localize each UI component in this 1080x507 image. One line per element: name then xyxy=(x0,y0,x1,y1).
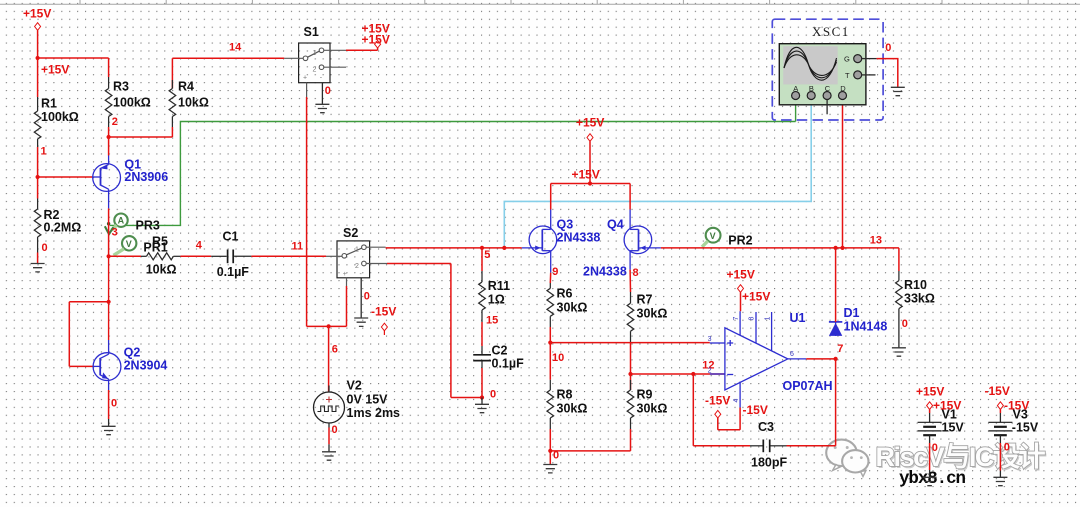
svg-text:1: 1 xyxy=(313,50,317,57)
svg-text:0: 0 xyxy=(885,42,891,54)
svg-text:+15V: +15V xyxy=(572,168,600,182)
svg-text:9: 9 xyxy=(552,266,558,278)
label Q1 xyxy=(124,157,168,184)
node 6 junction xyxy=(327,324,338,355)
ground below V1 xyxy=(923,477,937,485)
ground below S1 xyxy=(315,85,330,113)
svg-text:G: G xyxy=(844,55,850,64)
svg-text:8: 8 xyxy=(749,317,756,321)
watermark wechat logo xyxy=(826,440,868,477)
svg-text:0: 0 xyxy=(364,291,370,303)
svg-text:+15V: +15V xyxy=(362,33,390,47)
svg-text:0: 0 xyxy=(42,242,48,254)
wire R8 R9 bottom to ground xyxy=(548,449,630,464)
svg-text:0: 0 xyxy=(1004,442,1010,454)
resistor R5 10k xyxy=(109,235,181,277)
junction node13 scope D xyxy=(840,234,882,250)
svg-text:1: 1 xyxy=(764,317,771,321)
svg-text:2N4338: 2N4338 xyxy=(557,231,601,245)
resistor R3 100k xyxy=(105,77,151,137)
svg-text:100kΩ: 100kΩ xyxy=(41,110,79,124)
resistor R2 0.2M xyxy=(34,199,81,253)
wire C2 to ground node xyxy=(480,368,496,404)
junction rail xyxy=(588,181,592,185)
svg-text:R3: R3 xyxy=(113,80,129,94)
resistor R7 30k xyxy=(627,292,667,374)
probe PR1 xyxy=(114,236,168,255)
node junction rail/R3 xyxy=(36,56,40,60)
svg-text:2: 2 xyxy=(112,116,118,128)
svg-text:-15V: -15V xyxy=(1012,421,1039,435)
power +15V at op-amp pin7 xyxy=(727,267,771,311)
svg-text:0: 0 xyxy=(111,398,117,410)
transistor Q3 2N4338 xyxy=(522,210,557,273)
wire R6 to R8 xyxy=(549,343,551,380)
svg-text:-15V: -15V xyxy=(743,403,768,417)
diode D1 1N4148 xyxy=(829,306,887,336)
resistor R8 30k xyxy=(547,380,587,451)
svg-text:+15V: +15V xyxy=(576,116,604,130)
svg-text:4: 4 xyxy=(733,399,740,403)
svg-text:R9: R9 xyxy=(637,388,653,402)
wire green probe node to scope A xyxy=(110,100,796,226)
junction node5/R11 xyxy=(480,246,484,250)
capacitor C2 0.1uF xyxy=(473,344,524,371)
wire node 15 xyxy=(482,315,498,347)
svg-text:R5: R5 xyxy=(152,235,168,249)
svg-text:Q3: Q3 xyxy=(557,218,574,232)
wire op-amp output node 7 xyxy=(806,343,843,361)
junction C3 branch xyxy=(691,372,695,376)
wire V1 to ground xyxy=(930,442,938,477)
ground below R8 xyxy=(543,465,557,473)
svg-text:PR3: PR3 xyxy=(136,219,160,233)
svg-text:0: 0 xyxy=(325,85,331,97)
wire node1 to Q1 base xyxy=(38,176,93,178)
wire node 8 xyxy=(630,267,639,292)
svg-text:1: 1 xyxy=(355,247,359,254)
node 4 junction xyxy=(107,254,111,258)
ground below S2 xyxy=(354,291,370,327)
resistor R11 1ohm xyxy=(479,248,510,322)
resistor R1 100k xyxy=(34,97,79,148)
svg-text:PR2: PR2 xyxy=(728,234,752,248)
resistor R6 30k xyxy=(547,283,587,343)
svg-text:R11: R11 xyxy=(488,279,510,293)
wire scope G to ground xyxy=(877,42,898,87)
watermark text RiscV与IC设计 xyxy=(876,442,1048,474)
wire R4 bottom to node 2 xyxy=(109,127,173,137)
svg-text:Q4: Q4 xyxy=(607,218,624,232)
power +15V above Q3 Q4 xyxy=(572,116,605,184)
svg-text:7: 7 xyxy=(837,343,843,355)
svg-text:3: 3 xyxy=(708,336,712,343)
svg-text:V3: V3 xyxy=(1013,408,1028,422)
svg-text:C1: C1 xyxy=(223,230,239,244)
svg-text:33kΩ: 33kΩ xyxy=(904,292,935,306)
svg-text:0.1µF: 0.1µF xyxy=(217,265,250,279)
svg-text:R1: R1 xyxy=(41,97,57,111)
svg-text:7: 7 xyxy=(733,317,740,321)
wire node2 vertical xyxy=(108,137,110,156)
ground below R2 xyxy=(31,264,45,272)
resistor R9 30k xyxy=(627,374,667,451)
power +15V at S1 pin1 xyxy=(346,22,390,51)
wire R2 to ground xyxy=(38,242,48,264)
svg-text:30kΩ: 30kΩ xyxy=(557,402,588,416)
transistor Q2 2N3904 xyxy=(93,340,121,390)
svg-text:30kΩ: 30kΩ xyxy=(637,307,668,321)
svg-text:1ms 2ms: 1ms 2ms xyxy=(347,406,401,420)
wire 14 to S1 xyxy=(172,42,284,59)
svg-text:T: T xyxy=(845,71,850,80)
svg-text:S2: S2 xyxy=(343,226,358,240)
svg-text:XSC1: XSC1 xyxy=(812,24,850,39)
wire S2 pin2 to C2 bottom xyxy=(387,264,482,398)
svg-text:1: 1 xyxy=(41,146,47,158)
wire node 11 xyxy=(251,240,326,256)
wire scope D to node 13 xyxy=(842,100,844,248)
power -15V near S2 xyxy=(371,305,396,336)
ground below V2 xyxy=(322,452,336,460)
label Q4 xyxy=(583,218,627,279)
svg-text:V: V xyxy=(126,239,132,249)
svg-text:0: 0 xyxy=(490,389,496,401)
svg-text:180pF: 180pF xyxy=(751,456,787,470)
label Q3 xyxy=(557,218,601,245)
svg-text:R4: R4 xyxy=(178,80,194,94)
svg-text:10: 10 xyxy=(552,352,564,364)
wire node 4 xyxy=(180,239,211,256)
svg-text:0: 0 xyxy=(932,442,938,454)
junction node5/scope-B xyxy=(502,246,506,250)
ground below C2 xyxy=(475,404,489,412)
node 2 junction xyxy=(107,116,118,139)
wire C3 feedback xyxy=(693,359,835,446)
svg-text:+15V: +15V xyxy=(727,267,755,281)
wire node 10 xyxy=(548,341,710,365)
svg-text:15: 15 xyxy=(486,315,498,327)
svg-text:R7: R7 xyxy=(637,293,653,307)
svg-text:D1: D1 xyxy=(844,306,860,320)
svg-text:ybx8.cn: ybx8.cn xyxy=(899,469,966,489)
svg-text:Q2: Q2 xyxy=(124,346,141,360)
wire node 9 xyxy=(550,266,558,283)
source V2 xyxy=(314,379,401,428)
svg-text:2N3906: 2N3906 xyxy=(124,170,168,184)
wire V2 to ground xyxy=(329,424,338,452)
svg-text:+: + xyxy=(343,271,347,278)
wire +15V rail to Q3 Q4 drains xyxy=(551,184,630,210)
svg-text:0V 15V: 0V 15V xyxy=(347,393,389,407)
wire cyan node5 to scope B xyxy=(504,100,811,248)
svg-text:+: + xyxy=(303,75,307,82)
svg-text:V1: V1 xyxy=(942,408,957,422)
svg-text:8: 8 xyxy=(633,267,639,279)
node 1 xyxy=(36,146,47,199)
wire S1 bottom to S2 row xyxy=(306,97,308,326)
label Q2 xyxy=(124,346,168,373)
svg-text:11: 11 xyxy=(292,240,304,252)
svg-text:2N3904: 2N3904 xyxy=(124,359,168,373)
svg-text:C3: C3 xyxy=(758,420,774,434)
svg-text:2N4338: 2N4338 xyxy=(583,265,627,279)
svg-text:30kΩ: 30kΩ xyxy=(637,402,668,416)
resistor R4 10k xyxy=(169,58,209,127)
ground at scope xyxy=(891,87,905,95)
op-amp U1 OP07AH xyxy=(710,311,807,407)
svg-text:+15V: +15V xyxy=(41,63,69,77)
svg-text:R6: R6 xyxy=(557,287,573,301)
svg-text:-15V: -15V xyxy=(371,305,396,319)
switch S1 xyxy=(284,25,346,104)
svg-text:6: 6 xyxy=(790,351,794,358)
svg-text:100kΩ: 100kΩ xyxy=(113,96,151,110)
svg-text:+15V: +15V xyxy=(916,384,944,398)
svg-text:2: 2 xyxy=(708,367,712,374)
power +15V top-left xyxy=(23,7,69,77)
svg-text:OP07AH: OP07AH xyxy=(783,379,833,393)
wire feedback Q2 xyxy=(69,256,108,366)
junction Q2 feedback xyxy=(107,300,111,304)
svg-text:C2: C2 xyxy=(492,344,508,358)
svg-text:-15V: -15V xyxy=(705,393,730,407)
svg-text:0.1µF: 0.1µF xyxy=(492,357,525,371)
svg-text:R8: R8 xyxy=(557,388,573,402)
svg-text:3: 3 xyxy=(112,227,118,239)
ground below R10 xyxy=(892,348,906,356)
battery V3 -15V xyxy=(985,384,1039,443)
op-amp pin numbers xyxy=(708,317,794,403)
wire Q4 gate to node 13 xyxy=(661,247,899,249)
svg-text:1Ω: 1Ω xyxy=(488,293,505,307)
svg-text:4: 4 xyxy=(196,239,203,251)
svg-text:0: 0 xyxy=(902,318,908,330)
wire Q1 collector down xyxy=(108,208,110,256)
label U1 xyxy=(783,311,833,393)
svg-text:10kΩ: 10kΩ xyxy=(178,96,209,110)
svg-text:U1: U1 xyxy=(790,311,806,325)
svg-text:-15V: -15V xyxy=(985,384,1010,398)
wire V3 to ground xyxy=(1000,442,1010,478)
svg-text:5: 5 xyxy=(484,249,490,261)
svg-text:13: 13 xyxy=(870,234,882,246)
svg-text:S1: S1 xyxy=(304,25,319,39)
wire +15V rail top-left xyxy=(38,30,109,97)
svg-text:2: 2 xyxy=(355,263,359,270)
wire D1 to node 13 xyxy=(835,248,837,322)
wire Q2 emitter to ground xyxy=(109,390,118,426)
ground below V3 xyxy=(993,477,1007,485)
svg-text:V2: V2 xyxy=(347,379,362,393)
svg-text:2: 2 xyxy=(313,67,317,74)
svg-text:14: 14 xyxy=(229,42,242,54)
capacitor C3 180pF xyxy=(750,420,787,470)
wire S2 pin to node 6 xyxy=(307,286,347,392)
capacitor C1 0.1uF xyxy=(211,230,251,280)
svg-text:0.2MΩ: 0.2MΩ xyxy=(44,221,82,235)
svg-text:10kΩ: 10kΩ xyxy=(146,263,177,277)
svg-text:1N4148: 1N4148 xyxy=(844,319,888,333)
svg-text:RiscV与IC设计: RiscV与IC设计 xyxy=(876,442,1046,472)
probe PR3 xyxy=(105,214,160,235)
resistor R10 33k xyxy=(896,248,935,348)
svg-text:+15V: +15V xyxy=(742,290,770,304)
svg-text:A: A xyxy=(118,216,125,226)
svg-text:0: 0 xyxy=(332,424,338,436)
svg-text:R10: R10 xyxy=(904,278,927,292)
svg-text:0: 0 xyxy=(553,450,559,462)
wire node 12 xyxy=(628,360,725,377)
svg-text:+15V: +15V xyxy=(23,7,51,21)
battery V1 15V xyxy=(916,384,964,443)
svg-text:30kΩ: 30kΩ xyxy=(557,301,588,315)
junction node13 left xyxy=(834,246,838,250)
oscilloscope XSC1 xyxy=(772,19,883,120)
wire node 5 xyxy=(386,248,522,261)
power -15V at op-amp pin4 xyxy=(705,393,768,430)
ground below Q2 xyxy=(102,426,116,434)
switch S2 xyxy=(326,226,387,318)
svg-text:6: 6 xyxy=(332,344,338,356)
transistor Q1 2N3906 xyxy=(93,156,121,209)
probe PR2 xyxy=(702,228,753,248)
transistor Q4 2N4338 xyxy=(624,210,661,270)
svg-text:15V: 15V xyxy=(942,421,965,435)
svg-text:V: V xyxy=(710,231,716,241)
